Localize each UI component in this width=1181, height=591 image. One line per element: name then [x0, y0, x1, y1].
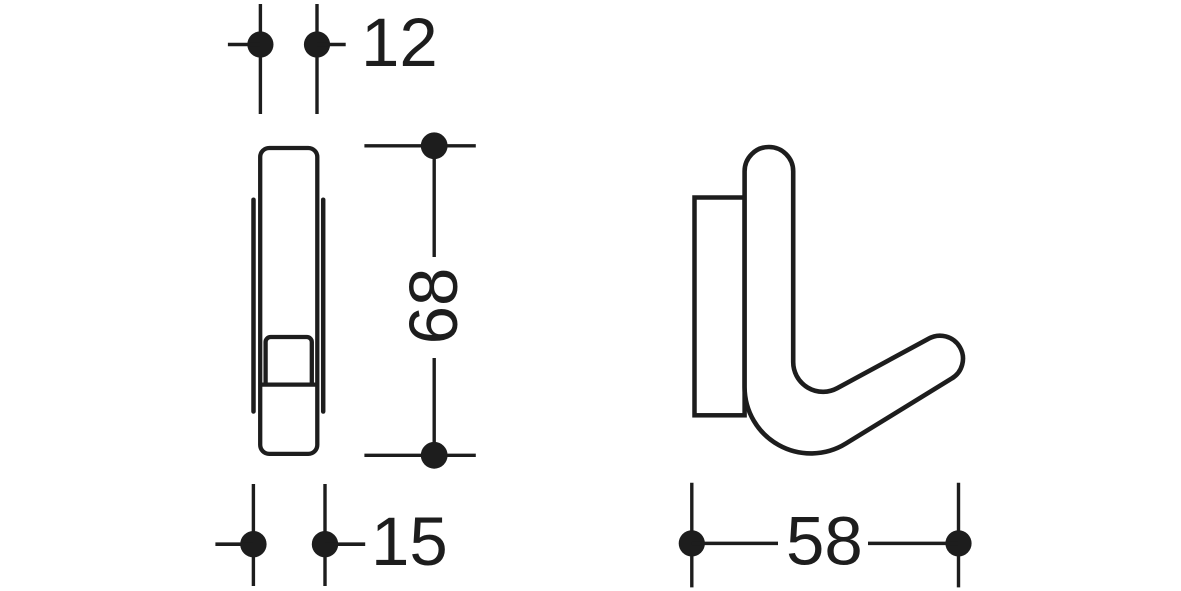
dimension line stub right: [317, 43, 346, 47]
extension line: [315, 4, 318, 114]
extension line: [252, 484, 255, 586]
svg-text:58: 58: [786, 503, 863, 580]
extension line: [323, 484, 326, 586]
svg-text:15: 15: [371, 503, 448, 580]
svg-text:12: 12: [361, 4, 438, 81]
hook profile (side view): [745, 147, 963, 453]
hook tip edge line (front view): [260, 382, 317, 386]
dimension dot: [312, 531, 338, 557]
dimension line stub left: [215, 542, 253, 546]
extension line: [690, 483, 693, 588]
hook tip outline (front view): [266, 337, 312, 385]
extension line upper segment: [433, 146, 436, 257]
dimension line top: [364, 144, 475, 147]
dimension dot: [247, 31, 273, 57]
hook body outline (front view): [260, 148, 317, 454]
extension line: [957, 483, 960, 588]
extension line: [259, 4, 262, 114]
extension line lower segment: [433, 358, 436, 455]
svg-text:68: 68: [395, 268, 472, 345]
dimension dot: [304, 31, 330, 57]
dimension dot: [679, 530, 705, 556]
dimension line left segment: [692, 542, 778, 546]
dimension line bottom: [364, 454, 475, 457]
dimension dot top: [421, 132, 448, 159]
dimension dot bottom: [421, 442, 448, 469]
dimension dot: [945, 530, 971, 556]
dimension dot: [240, 531, 266, 557]
dimension line stub right: [325, 542, 365, 546]
wall plate (side view): [695, 198, 745, 416]
dimension line stub left: [228, 43, 261, 47]
backplate left edge (front view): [251, 200, 256, 412]
dimension line right segment: [868, 542, 959, 546]
backplate right edge (front view): [321, 200, 326, 412]
